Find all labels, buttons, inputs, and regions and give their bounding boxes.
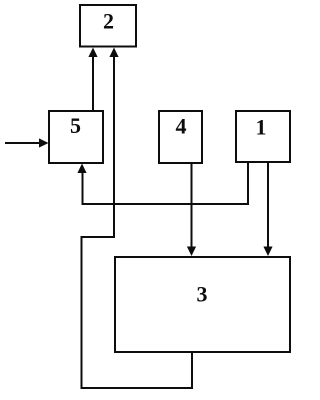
wire block 1 bottom-left to block 5 bottom [83, 162, 249, 204]
block 1 [236, 111, 290, 162]
block 4 [159, 111, 202, 163]
block 3 [115, 257, 290, 352]
svg-text:3: 3 [197, 282, 208, 307]
wire input arrow into block 5 [5, 142, 41, 144]
wire block 5 top to block 2 [92, 53, 94, 110]
block 2 [80, 5, 136, 47]
svg-text:4: 4 [176, 114, 187, 139]
svg-text:2: 2 [103, 9, 114, 34]
svg-text:5: 5 [70, 113, 81, 138]
svg-text:1: 1 [256, 115, 267, 140]
wire block 1 bottom-right to block 3 [267, 162, 269, 250]
wire feedback block 3 bottom to block 2 [82, 53, 193, 388]
block 5 [49, 111, 103, 163]
wire block 4 to block 3 [191, 163, 193, 250]
